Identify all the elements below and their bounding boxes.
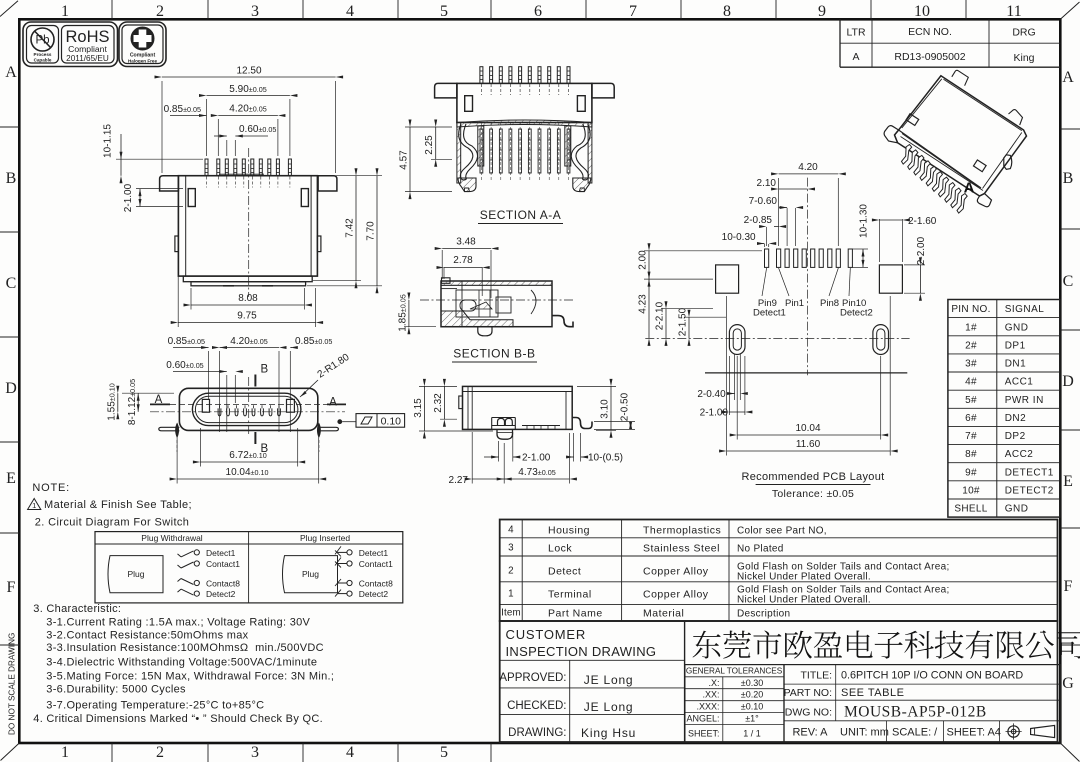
switch contacts withdrawal [178,548,241,599]
svg-text:Plug Withdrawal: Plug Withdrawal [141,533,203,543]
dim 10-(0.5) side [566,433,623,464]
svg-text:Part Name: Part Name [548,608,603,620]
svg-text:1: 1 [32,501,36,510]
svg-text:2.78: 2.78 [453,255,473,266]
svg-text:ANGEL:: ANGEL: [686,714,719,724]
svg-text:4.20±0.05: 4.20±0.05 [229,104,266,115]
svg-text:DETECT2: DETECT2 [1005,486,1054,497]
svg-text:3-4.Dielectric Withstanding Vo: 3-4.Dielectric Withstanding Voltage:500V… [46,657,317,669]
section A-A right spring contact [576,124,590,179]
svg-text:JE Long: JE Long [584,700,634,714]
svg-text:Housing: Housing [548,525,590,537]
svg-text:.XXX:: .XXX: [696,702,719,712]
section B-B body [441,278,552,327]
svg-text:DN1: DN1 [1005,359,1027,370]
svg-text:Stainless Steel: Stainless Steel [643,543,720,555]
dim 0.85 left mating [168,336,227,432]
svg-text:2-0.40: 2-0.40 [697,389,726,400]
dim 4.73 side [497,433,577,484]
dim 0.85 front [164,104,207,117]
svg-text:DRAWING:: DRAWING: [508,727,566,739]
dim 1.55 [107,383,175,420]
svg-text:2: 2 [156,744,164,761]
section cut marks A-A [150,394,346,409]
svg-text:No Plated: No Plated [737,544,784,555]
svg-text:5.90±0.05: 5.90±0.05 [229,84,266,95]
svg-text:3.10: 3.10 [600,399,611,419]
svg-text:B: B [6,170,17,187]
svg-text:GND: GND [1005,504,1029,515]
checked row [507,700,633,714]
svg-text:2-0.85: 2-0.85 [744,215,773,226]
svg-text:E: E [1063,473,1073,490]
svg-text:DP2: DP2 [1005,431,1026,442]
section A-A left spring contact [459,124,473,179]
title block outline [500,621,1058,742]
svg-text:±0.30: ±0.30 [741,678,763,688]
svg-text:ACC2: ACC2 [1005,449,1034,460]
dim 7.70 [307,168,382,293]
dim 2.00 pcb [638,243,763,286]
svg-text:2-1.50: 2-1.50 [678,307,689,336]
dim 2-1.50 pcb [678,307,727,346]
svg-text:2-1.00: 2-1.00 [522,453,551,464]
svg-text:7-0.60: 7-0.60 [749,196,778,207]
BOM table [500,520,1058,622]
dim 2.10 pcb [757,178,815,191]
section A-A latch holes [465,96,473,112]
dim 2-1.00 latch [123,183,183,212]
svg-text:10.04: 10.04 [795,423,820,434]
section B-B bottom foot [478,327,492,336]
svg-text:NOTE:: NOTE: [32,482,70,494]
svg-text:6#: 6# [965,413,977,424]
svg-text:2: 2 [508,566,514,577]
svg-text:ACC1: ACC1 [1005,377,1034,388]
dim 2.32 side [433,379,457,427]
dim 2-0.40 pcb [697,389,747,400]
front view bottom plates [183,276,312,282]
section B-B solder tail [552,316,573,327]
svg-text:Detect1: Detect1 [359,548,389,558]
svg-text:CUSTOMER: CUSTOMER [506,627,587,642]
svg-text:8: 8 [723,3,731,20]
svg-text:King: King [1013,52,1034,64]
svg-text:JE Long: JE Long [584,673,634,687]
dim 2.78 [437,255,490,296]
side view pcb pads under body [522,426,560,430]
dim 4.20 front [211,104,286,157]
svg-text:D: D [1062,373,1074,390]
svg-text:Halogen Free: Halogen Free [128,59,158,64]
dim 8.08 [184,288,312,310]
section A-A right foot [573,178,591,192]
svg-text:.XX:: .XX: [702,690,719,700]
general tolerances table [685,665,784,743]
svg-text:2#: 2# [965,340,977,351]
dim 10.04 [170,433,327,484]
svg-text:INSPECTION DRAWING: INSPECTION DRAWING [506,644,657,659]
dim 2-2.00 pcb [904,236,927,300]
svg-text:UNIT: mm: UNIT: mm [840,727,889,739]
svg-text:Nickel Under Plated Overall.: Nickel Under Plated Overall. [737,595,871,606]
section A-A left foot [458,178,476,192]
svg-text:A: A [852,51,859,63]
svg-text:2011/65/EU: 2011/65/EU [66,54,109,63]
svg-text:7#: 7# [965,431,977,442]
svg-text:Tolerance: ±0.05: Tolerance: ±0.05 [772,488,854,500]
section B-B hatched shell bottom [441,311,513,327]
svg-text:10-(0.5): 10-(0.5) [588,453,623,464]
svg-text:0.60±0.05: 0.60±0.05 [166,360,203,371]
svg-text:Contact8: Contact8 [206,579,240,589]
dim 2-2.10 pcb [655,301,714,346]
zone column labels bottom [61,743,491,762]
svg-text:Plug Inserted: Plug Inserted [300,533,350,543]
svg-text:Recommended PCB Layout: Recommended PCB Layout [742,471,885,483]
section A-A pins top [480,67,570,95]
svg-text:DO NOT SCALE DRAWING: DO NOT SCALE DRAWING [8,633,17,735]
switch diagram table [95,532,403,603]
isometric right side tab [1004,155,1012,170]
svg-text:C: C [6,275,17,292]
svg-text:1: 1 [508,589,514,600]
svg-text:4.20: 4.20 [798,162,818,173]
front view centerline [248,148,250,297]
dim 10-0.30 pcb [722,232,777,247]
svg-text:SECTION A-A: SECTION A-A [480,208,562,222]
svg-text:3-7.Operating Temperature:-25°: 3-7.Operating Temperature:-25°C to+85°C [46,700,264,712]
svg-text:King Hsu: King Hsu [581,726,636,740]
svg-text:PWR IN: PWR IN [1005,395,1044,406]
dim 4.23 pcb [638,272,651,346]
side view body [459,386,572,429]
svg-text:2-1.00: 2-1.00 [123,183,134,212]
svg-text:REV: A: REV: A [792,727,828,739]
svg-text:0.85±0.05: 0.85±0.05 [164,104,201,115]
svg-text:C: C [1063,273,1074,290]
dim 4.57 [399,120,453,200]
svg-text:Detect2: Detect2 [206,589,236,599]
svg-text:±1°: ±1° [745,714,759,724]
section A-A housing top strip [457,120,592,127]
svg-text:3: 3 [251,3,259,20]
front view latch holes [188,189,195,207]
dim 3.48 [435,237,499,299]
svg-text:Pin1: Pin1 [785,298,804,309]
svg-text:DN2: DN2 [1005,413,1027,424]
dim 2-R1.80 [300,352,352,397]
svg-text:Description: Description [737,609,790,620]
svg-text:±0.10: ±0.10 [741,702,763,712]
svg-text:Process: Process [34,52,52,57]
svg-text:2.27: 2.27 [449,475,469,486]
pcb board edge [705,372,907,374]
svg-text:10: 10 [914,3,930,20]
svg-text:2.00: 2.00 [638,250,649,270]
dim 0.60 mating [166,360,243,432]
svg-text:.X:: .X: [708,678,719,688]
pin8 label [820,268,839,309]
pin signal table [948,300,1060,518]
svg-text:Thermoplastics: Thermoplastics [643,525,721,537]
svg-text:2-1.60: 2-1.60 [908,216,937,227]
dim 4.20 pcb [771,162,846,246]
svg-text:3-6.Durability: 5000 Cycles: 3-6.Durability: 5000 Cycles [46,684,186,696]
svg-text:A: A [1062,69,1074,86]
svg-text:1: 1 [61,744,69,761]
svg-text:4.23: 4.23 [638,294,649,314]
section A-A contact pins [480,122,570,181]
svg-text:Terminal: Terminal [548,589,592,601]
svg-text:2-2.10: 2-2.10 [655,301,666,330]
svg-text:4#: 4# [965,377,977,388]
svg-text:1#: 1# [965,322,977,333]
front view pins [205,159,291,188]
svg-text:DWG NO:: DWG NO: [785,707,832,719]
dim 6.72 [193,428,305,467]
svg-text:Lock: Lock [548,543,572,555]
side view solder legs [492,418,516,440]
svg-text:Nickel Under Plated Overall.: Nickel Under Plated Overall. [737,572,871,583]
svg-text:4.20±0.05: 4.20±0.05 [230,336,267,347]
svg-text:MOUSB-AP5P-012B: MOUSB-AP5P-012B [844,704,987,721]
svg-text:SEE TABLE: SEE TABLE [841,687,904,699]
svg-text:3-5.Mating Force: 15N Max, Wit: 3-5.Mating Force: 15N Max, Withdrawal Fo… [46,671,334,683]
svg-text:5#: 5# [965,395,977,406]
section B-B terminal details [456,290,511,317]
dim 3.15 side [413,379,493,439]
svg-text:F: F [7,579,16,596]
switch plug withdrawal symbol [108,556,163,593]
mating face outer shell [179,388,317,430]
svg-text:11.60: 11.60 [796,439,821,450]
dim 0.60 front [214,124,276,156]
svg-text:Color see Part NO,: Color see Part NO, [737,526,827,537]
pin1 label [779,268,804,309]
svg-text:SECTION B-B: SECTION B-B [453,347,535,361]
dim 12.50 [155,66,344,174]
svg-text:4: 4 [508,525,514,536]
svg-text:Compliant: Compliant [68,44,107,54]
dim 10.04 pcb [730,356,889,440]
svg-text:GENERAL TOLERANCES: GENERAL TOLERANCES [686,667,783,676]
company name chinese [693,630,1080,659]
svg-text:2. Circuit Diagram For Switch: 2. Circuit Diagram For Switch [35,517,190,529]
svg-text:3: 3 [251,744,259,761]
svg-text:4.73±0.05: 4.73±0.05 [518,467,555,478]
svg-text:4: 4 [346,744,354,761]
mating face contacts [218,405,280,416]
ECN revision table [840,19,1060,67]
halogen free badge [119,22,166,67]
svg-text:12.50: 12.50 [236,66,261,77]
title fields [784,665,1061,743]
drawing row [508,726,636,740]
dim 8-1.12 [127,379,140,425]
svg-text:Detect: Detect [548,566,581,578]
svg-text:1: 1 [61,3,69,20]
svg-text:3#: 3# [965,359,977,370]
front view side bumps [175,236,179,252]
svg-text:Item: Item [501,608,521,619]
dim 10-1.15 [103,124,204,184]
pcb layout oblong holes [729,325,888,355]
svg-text:6.72±0.10: 6.72±0.10 [229,450,266,461]
svg-text:Contact1: Contact1 [359,559,393,569]
dim 3.10 side [577,379,616,438]
svg-text:Detect2: Detect2 [840,308,873,319]
svg-text:APPROVED:: APPROVED: [499,672,566,684]
svg-text:5: 5 [440,3,448,20]
svg-text:2.25: 2.25 [424,135,435,155]
svg-text:Material: Material [643,608,684,620]
isometric left ear [884,126,899,143]
svg-text:2: 2 [156,3,164,20]
svg-text:DETECT1: DETECT1 [1005,467,1054,478]
section A-A sectioned outer contact left [478,126,484,166]
mating face latch slots [202,399,209,412]
dim 7-0.60 pcb [749,196,803,246]
svg-text:3-3.Insulation Resistance:100M: 3-3.Insulation Resistance:100MOhmsΩ min.… [46,642,324,654]
svg-text:3-2.Contact Resistance:50mOhms: 3-2.Contact Resistance:50mOhms max [46,629,248,641]
svg-text:9: 9 [818,3,826,20]
dim 2.25 [424,120,452,167]
svg-text:±0.20: ±0.20 [741,690,763,700]
dim 2-1.60 pcb [872,216,937,262]
section B-B hatched top strip [441,281,552,285]
svg-text:B: B [261,364,269,376]
svg-text:8-1.12±0.05: 8-1.12±0.05 [127,379,138,425]
dim 11.60 pcb [719,296,898,456]
svg-text:7: 7 [629,3,637,20]
dim 1.85 [398,293,437,335]
svg-text:SIGNAL: SIGNAL [1005,304,1045,315]
svg-text:8#: 8# [965,449,977,460]
dim 5.90 [199,84,297,156]
zone column labels top [61,0,1022,20]
svg-text:9#: 9# [965,467,977,478]
corner diagonals [0,1,18,17]
svg-text:11: 11 [1006,3,1021,20]
svg-text:0.60±0.05: 0.60±0.05 [239,124,276,135]
svg-text:10-0.30: 10-0.30 [722,232,756,243]
switch contacts inserted [335,546,393,599]
svg-text:SHEET: A4: SHEET: A4 [947,727,1001,739]
isometric back edge bumps [952,70,969,85]
pcb layout pads [765,249,853,267]
dim 4.20 mating [212,336,287,432]
svg-text:0.85±0.05: 0.85±0.05 [168,336,205,347]
svg-text:TITLE:: TITLE: [800,670,832,682]
svg-text:Plug: Plug [127,569,144,579]
svg-text:2.10: 2.10 [757,178,777,189]
svg-text:A: A [5,64,17,81]
note 1 material [28,499,192,512]
svg-text:10-1.15: 10-1.15 [103,124,114,158]
svg-text:Plug: Plug [302,569,319,579]
svg-text:LTR: LTR [846,27,865,39]
dim 7.42 [313,168,361,288]
svg-text:DRG: DRG [1012,27,1035,39]
dim 2.27 side [449,432,512,486]
mating face centerlines [248,377,250,436]
customer inspection drawing text [506,627,657,659]
mating face opening [192,393,301,425]
side view solder tail right [572,418,592,429]
svg-text:10-1.30: 10-1.30 [859,204,870,238]
svg-text:CHECKED:: CHECKED: [507,700,566,712]
svg-text:Copper Alloy: Copper Alloy [643,589,709,601]
svg-text:2-2.00: 2-2.00 [916,236,927,265]
svg-text:7.70: 7.70 [366,221,377,241]
section A-A sectioned outer contact right [565,126,571,166]
isometric view connector body [895,76,1027,196]
svg-text:GND: GND [1005,322,1029,333]
third angle projection symbol [1006,723,1055,739]
dim 2-0.85 pcb [744,215,786,246]
svg-text:Contact8: Contact8 [359,579,393,589]
svg-text:SCALE: /: SCALE: / [892,727,938,739]
isometric bottom foot [977,194,991,207]
svg-text:8.08: 8.08 [238,293,258,304]
svg-text:SHEET:: SHEET: [688,729,720,739]
svg-text:Copper Alloy: Copper Alloy [643,566,709,578]
svg-text:D: D [5,380,17,397]
zone row labels right [1060,69,1080,692]
dim 9.75 [171,193,323,327]
svg-text:1.55±0.10: 1.55±0.10 [107,383,118,420]
svg-text:4: 4 [346,3,354,20]
note 3 characteristics [33,603,334,712]
svg-text:ECN NO.: ECN NO. [908,26,952,38]
switch plug inserted symbol [283,556,338,593]
svg-text:1 / 1: 1 / 1 [743,729,761,739]
svg-text:10#: 10# [962,486,980,497]
rev unit scale sheet row [792,721,1000,742]
section A-A hatched left wall [457,123,461,184]
pcb slot lines below oblong [729,355,745,416]
pin9 label [753,268,786,319]
svg-text:7.42: 7.42 [345,218,356,238]
svg-text:3.15: 3.15 [413,398,424,418]
svg-text:9.75: 9.75 [237,311,257,322]
svg-text:0.10: 0.10 [381,416,402,428]
flatness feature frame [337,414,404,428]
svg-text:F: F [1064,578,1073,595]
section A-A hatched right wall [588,123,592,184]
dim 10-1.30 pcb [852,204,869,268]
svg-text:3.48: 3.48 [456,237,476,248]
svg-text:3: 3 [508,543,514,554]
svg-text:RD13-0905002: RD13-0905002 [894,51,965,63]
svg-text:2-0.50: 2-0.50 [620,392,631,421]
section B-B centerline [420,299,573,301]
svg-text:Detect1: Detect1 [206,548,236,558]
svg-text:Detect2: Detect2 [359,589,389,599]
approved row [499,672,633,687]
dim 0.85 right mating [290,336,332,432]
svg-text:Pin8: Pin8 [820,298,839,309]
pin10 label [840,268,873,319]
isometric latch hole right [973,160,986,172]
svg-text:3. Characteristic:: 3. Characteristic: [33,603,121,615]
svg-text:6: 6 [534,3,542,20]
svg-text:SHELL: SHELL [954,504,987,515]
svg-text:B: B [1063,170,1074,187]
zone row labels left [0,64,19,645]
pcb layout centerlines [645,337,909,339]
